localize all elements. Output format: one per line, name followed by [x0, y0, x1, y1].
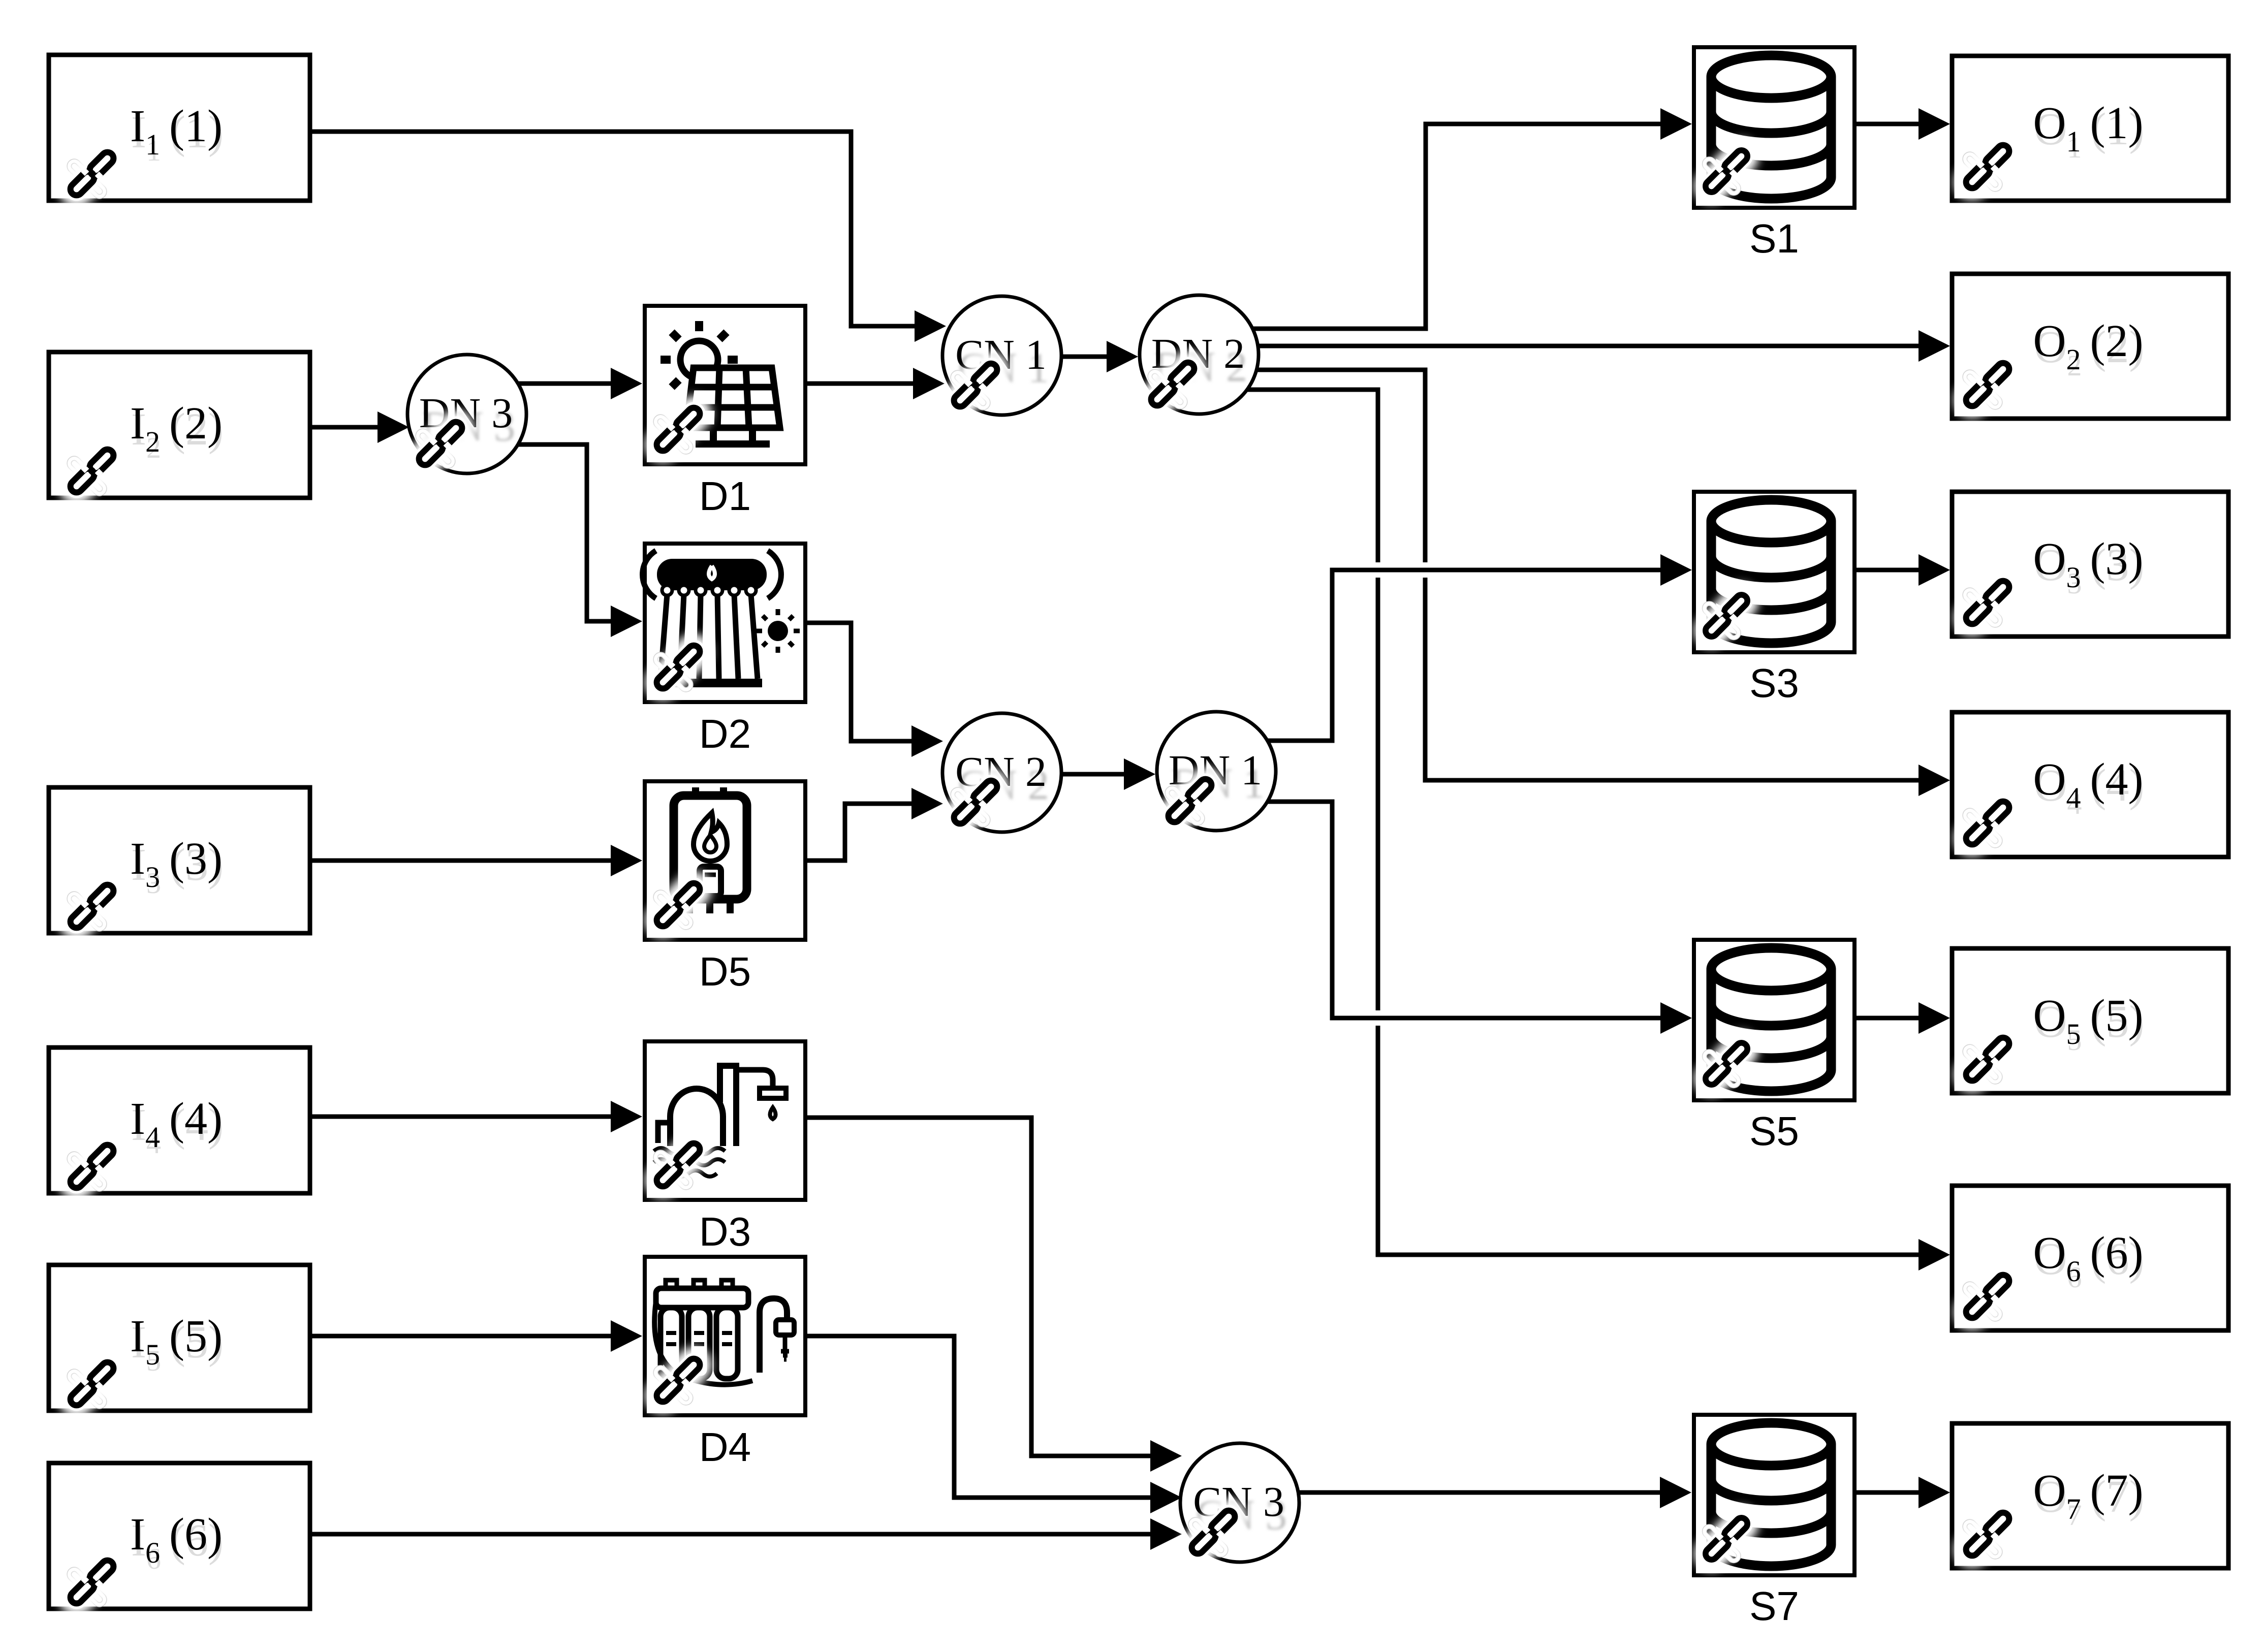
- svg-text:D5: D5: [699, 949, 751, 994]
- svg-text:S3: S3: [1749, 660, 1799, 706]
- svg-text:S1: S1: [1749, 216, 1799, 261]
- svg-text:D3: D3: [699, 1209, 751, 1254]
- svg-text:D1: D1: [699, 473, 751, 519]
- svg-text:D2: D2: [699, 711, 751, 756]
- svg-text:S5: S5: [1749, 1108, 1799, 1154]
- svg-text:D4: D4: [699, 1424, 751, 1470]
- svg-text:S7: S7: [1749, 1583, 1799, 1629]
